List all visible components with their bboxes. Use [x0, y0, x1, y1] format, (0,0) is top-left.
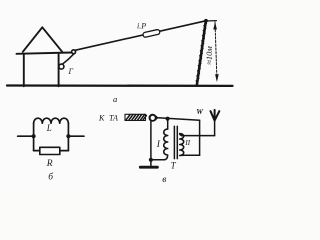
wire down right — [199, 120, 201, 135]
circuit б : left lead — [18, 135, 34, 137]
right lead — [68, 135, 84, 137]
top tick to dimension line — [206, 20, 216, 22]
primary winding I — [164, 129, 168, 160]
plug circle hole — [151, 116, 155, 120]
dimension line — [215, 22, 217, 81]
wire right side — [67, 123, 69, 150]
house right wall — [58, 54, 60, 86]
mast top knob — [204, 19, 208, 23]
svg-text:W: W — [196, 107, 204, 116]
wire plug down — [150, 120, 152, 159]
wire up to antenna — [214, 121, 216, 136]
pulley ring — [59, 64, 64, 69]
mast — [197, 20, 206, 85]
svg-text:в: в — [162, 175, 166, 185]
svg-text:L: L — [46, 123, 52, 133]
antenna wire — [75, 21, 206, 51]
ground — [7, 84, 233, 87]
house left wall — [23, 54, 25, 86]
wire box bottom — [183, 154, 199, 156]
inductor L — [34, 118, 69, 123]
antenna W symbol — [211, 110, 220, 121]
svg-text:II: II — [184, 138, 190, 147]
node top — [166, 117, 170, 121]
wire across (box top) — [182, 135, 215, 137]
secondary winding II — [180, 134, 184, 156]
house roof — [23, 27, 62, 52]
svg-text:ТА: ТА — [109, 113, 118, 122]
wire bottom — [151, 159, 165, 161]
primary top lead — [167, 119, 169, 129]
svg-text:а: а — [113, 94, 117, 104]
svg-text:R: R — [46, 159, 53, 169]
dimension arrow down — [215, 74, 219, 82]
svg-text:Т: Т — [171, 161, 177, 171]
cable body hatched — [125, 114, 146, 120]
svg-text:≈10м: ≈10м — [204, 46, 214, 65]
plug tip — [149, 114, 157, 122]
wire box right — [199, 136, 201, 156]
svg-text:К: К — [98, 113, 105, 122]
wire left side — [33, 123, 35, 150]
ground bar — [140, 166, 157, 169]
svg-text:і.Р: і.Р — [137, 21, 146, 30]
resistor R — [40, 147, 60, 154]
svg-text:Г: Г — [68, 67, 74, 76]
house eave / bracket — [17, 53, 72, 54]
top wire — [158, 118, 200, 121]
wire bottom — [34, 150, 69, 152]
svg-text:б: б — [48, 172, 54, 183]
svg-text:I: I — [156, 140, 161, 150]
node left — [31, 134, 35, 138]
node bottom — [149, 158, 153, 162]
ground stub — [150, 160, 152, 166]
insulator eye on bracket — [72, 50, 76, 54]
halyard curve — [63, 54, 74, 64]
node right — [66, 134, 70, 138]
mast hatch ticks — [196, 23, 206, 81]
dimension arrow up — [213, 22, 217, 30]
core — [174, 126, 177, 158]
wire insulator — [143, 29, 161, 37]
